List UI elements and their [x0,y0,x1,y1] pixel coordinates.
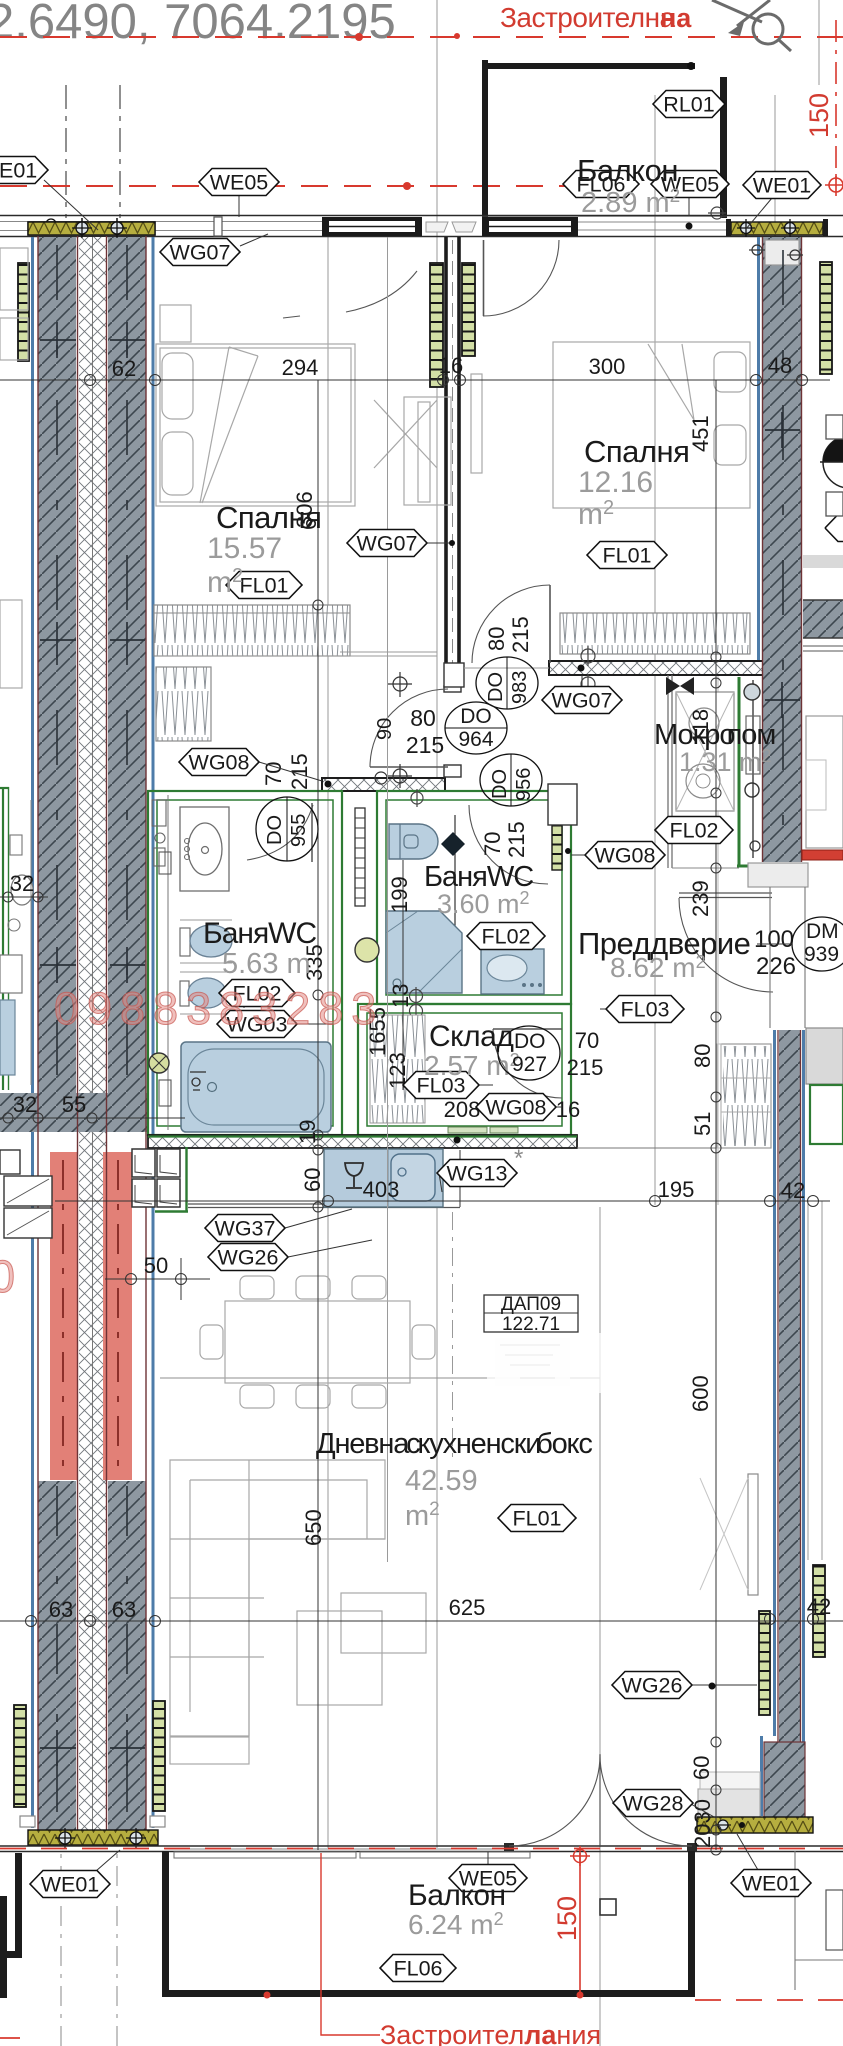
wet room threshold line [672,867,739,869]
svg-text:625: 625 [449,1595,486,1620]
balcony top right parapet [720,77,727,218]
dining table [225,1301,410,1383]
balcony node dot bottom [686,223,693,230]
right exterior wall upper concrete [763,237,802,862]
svg-text:600: 600 [688,1375,713,1412]
top wall mullion tick [214,217,222,236]
right wall widened block [764,1742,805,1833]
left wall insulation band bottom [28,1830,158,1845]
bed bedroom2 pillow 2 [714,425,746,465]
label hexagon WE01 at 782,185 [743,172,821,199]
svg-text:80: 80 [410,705,436,731]
svg-text:FL02: FL02 [669,819,718,843]
door WG28 right swing arc [600,1755,692,1846]
bath1 riser rect 2 [159,1080,171,1106]
red building line top [0,36,843,38]
bedroom2 shelf strip [471,374,482,473]
door DO955 leaf [311,803,313,862]
balcony top left parapet [482,60,488,218]
svg-text:100: 100 [754,926,794,953]
wall axis dash vertical west lower [56,1486,58,1825]
wardrobe bedroom2 [560,613,750,654]
bedroom1 desk inner strip [418,402,430,502]
right wall axis mark 2 [765,682,800,718]
neighbor bath green wall top [0,787,9,789]
node dot br insulation [739,1822,745,1828]
door tag circle DO956 [480,754,542,806]
svg-text:Балкон: Балкон [577,153,678,188]
neighbor right bottom window [826,1890,843,1950]
wall axis dash vertical east lower [126,1486,128,1825]
kitchen vent block a [132,1149,155,1177]
bed bedroom1 inner border [160,348,351,502]
south wall sill mid line [165,1848,509,1850]
corridor closet sill [717,1044,721,1148]
survey point bottom insulation 1 [55,1828,75,1848]
bath1 tap symbol [190,1072,206,1090]
balcony bottom south parapet [162,1990,695,1997]
corridor east boundary line 1 [769,887,771,1028]
dimension chain y1621 [0,1620,843,1622]
insulation band top right WE01 [731,222,823,235]
door DO955 swing arc [247,805,313,860]
svg-text:2.89 m2: 2.89 m2 [581,186,680,219]
label hexagon FL02 at 506,936 [467,923,545,950]
top wall sill under balcony 2 [578,229,727,231]
wall axis dash vertical west bar [56,245,58,1088]
label hexagon FL06 at 418,1968 [380,1955,456,1982]
corridor closet hatch fill [723,1046,769,1146]
left wall crosshatch center line [92,237,94,1830]
dim circles x318 [313,600,323,1212]
svg-text:Балкон: Балкон [408,1879,506,1912]
neighbor furniture top-left 3 [0,600,22,688]
neighbor room green right [810,1085,843,1144]
svg-text:WG07: WG07 [170,241,231,265]
bath2 shower corner line [386,911,462,993]
left wall axis mark d [40,1730,145,1766]
red axis line bottom vertical [579,1853,581,1997]
grid axis dashed x120 top [119,85,121,218]
svg-text:300: 300 [589,354,626,379]
wardrobe bedroom1 front line [154,612,350,614]
wet room green wall east [738,677,741,866]
south wall window line outer [0,1845,843,1847]
sofa ottoman [170,1737,249,1764]
label hexagon WE01 at 70,1884 [30,1871,110,1898]
svg-text:DO: DO [485,672,507,702]
bath1 bathtub [181,1042,331,1132]
bath2 sink cabinet [481,949,544,994]
bath1 outer green wall [148,791,342,1135]
svg-text:60: 60 [300,1168,325,1192]
left wall red edge line 2 [77,236,79,1830]
balcony bottom west parapet [162,1851,169,1997]
label hexagon WG08 at 625,855 [585,842,665,869]
left wall red masonry east [103,1152,132,1480]
left wall red edge line 3 [106,236,108,1830]
right wall red edge east [801,237,803,862]
bath2 towel radiator [552,808,562,870]
sofa cushion line 1 [170,1538,385,1540]
red node dot bottom a [577,1992,584,1999]
insulation band top left WE01 [28,222,155,235]
wardrobe bedroom1 [154,605,350,656]
red node dot bottom b [264,1992,271,1999]
neighbor kitchen block a [4,1176,52,1206]
sklad inner green wall [367,1013,562,1126]
label hexagon WG28 at 653,1803 [613,1790,693,1817]
wet room green wall south [737,865,768,868]
living axis dashed x452 [452,1212,454,1462]
kitchen green wall return vertical [185,1147,187,1212]
neighbor wall thin lines right [803,646,843,651]
neighbor furniture top-left 2 [0,318,28,360]
compass magnifier icon [712,0,791,51]
svg-text:48: 48 [768,353,792,378]
bath1 faucet dots [185,839,190,860]
right wall blue inner line upper [757,237,760,660]
svg-text:15.57: 15.57 [207,532,282,565]
inter-bedroom wall line west [444,237,448,686]
neighbor bath green wall west inner [8,787,10,1090]
radiator bedroom2 side [462,263,475,356]
living grid vertical x387 [387,237,389,1562]
DAP09 smudge [495,1338,570,1386]
svg-text:215: 215 [567,1055,604,1080]
wet room pipes line [752,680,754,858]
left wall concrete bar east lower [108,1481,146,1830]
svg-text:239: 239 [688,880,713,917]
bath2 inner green wall [386,800,562,995]
svg-text:Спалня: Спалня [584,434,689,469]
threshold grey block bottom right [698,1789,760,1833]
svg-text:1.31 m2: 1.31 m2 [679,746,772,777]
section marker half circle right edge [820,436,843,488]
bath1 riser cluster top [152,800,166,866]
bath2 shower drain [393,979,401,987]
survey point on insulation 1 [72,218,92,238]
wall junction trapezoid left [426,222,448,232]
bath2 toilet tank divider [399,824,401,859]
sklad shelving hatch [370,1015,425,1123]
svg-text:403: 403 [363,1177,400,1202]
door tag circle DO927 [498,1026,560,1080]
svg-text:FL06: FL06 [393,1957,442,1981]
door DO983 jamb block [444,663,464,687]
kitchen unit divider [387,1149,389,1207]
left wall red edge line 4 [145,236,147,1830]
bath2 wall junction dot [565,848,571,854]
svg-text:50: 50 [144,1253,168,1278]
svg-text:80: 80 [484,627,509,651]
left wall axis mark c [40,947,145,983]
balcony top parapet [482,63,695,69]
sill green strip a [448,1127,487,1133]
armchair living [341,1593,426,1653]
svg-text:WG26: WG26 [218,1246,279,1270]
wet room pipe circle 2 [745,783,759,797]
inter-bedroom wall jamb [444,686,461,692]
label hexagon WG07 at 582,700 [542,687,622,714]
right wall blue line lower [762,1030,775,1816]
label hexagon WG26 at 248,1257 [208,1244,288,1271]
right exterior wall lower concrete [779,1030,801,1742]
svg-text:63: 63 [112,1597,136,1622]
kitchen vent block b [157,1149,180,1177]
left wall concrete bar east upper [108,237,146,1093]
svg-text:DO: DO [514,1030,546,1053]
bed bedroom2 fold line [648,344,694,420]
baths south wall band [148,1135,577,1148]
bath1 bidet tank [180,981,189,1006]
wall end caps bottom left [20,1816,35,1827]
door tag circle DM939 [792,917,843,971]
cabinet bedroom1 low [156,667,211,741]
left wall party-wall stub [0,1093,147,1132]
svg-text:WG08: WG08 [486,1096,547,1120]
corridor closet shelf lines [721,1078,771,1112]
door tag circle DO964 [445,702,507,754]
svg-text:451: 451 [688,415,713,452]
entrance niche [748,863,808,887]
bath1 bidet bowl [188,978,226,1008]
dim circles y1201 [323,1196,819,1207]
door DO927 swing arc [493,1029,562,1098]
wet room washing unit [676,692,734,811]
grid axis vertical x600 bottom [599,1207,601,2046]
bath1 bidet shelf line [180,972,228,1014]
svg-text:55: 55 [62,1092,86,1117]
svg-text:FL01: FL01 [239,574,288,598]
vertical dim chain left x318 [317,380,319,1850]
leader lines for labels [44,180,98,230]
right wall axis dash lower [789,1040,791,1735]
svg-text:БаняWC: БаняWC [203,917,317,950]
grid axis vertical x819 [818,0,820,85]
svg-text:Склад: Склад [429,1020,513,1053]
bath1 bathtub drain [208,1083,217,1092]
dim circles y1621 [26,1616,161,1627]
dim chain left y897 [0,896,48,898]
grid axis dashed x61 bottom [60,1626,62,2046]
bath1 toilet bowl [190,925,232,957]
right wall survey circle top b [787,250,803,260]
label hexagon WG08 at 516,1107 [476,1094,556,1121]
wall axis dash vertical east bar [126,245,128,1088]
svg-text:6: 6 [296,518,321,530]
svg-text:WE01: WE01 [753,174,812,198]
grid axis vertical x775 [774,95,776,240]
dim circles y1114 [3,1113,97,1123]
svg-text:964: 964 [458,728,493,751]
kitchen vent block d [157,1179,180,1207]
left exterior wall blue line east [152,237,155,1828]
bed bedroom2 pillow 1 [714,352,746,392]
svg-text:WG08: WG08 [595,844,656,868]
svg-text:63: 63 [49,1597,73,1622]
svg-text:WG13: WG13 [447,1162,508,1186]
red survey circle bottom [570,1846,590,1866]
DM939 leader [757,943,792,945]
bath2 sink oval [487,955,527,981]
balcony sill bracket 1 [174,1852,356,1858]
sklad outer green wall [358,1004,571,1135]
radiator living right [759,1611,770,1715]
svg-text:983: 983 [509,671,531,704]
top wall outer edge line [0,215,843,217]
insulation band bottom right [697,1817,813,1833]
svg-text:80: 80 [690,1044,715,1068]
label hexagon WG07 at 387,543 [347,530,427,557]
baths south wall green line [148,1135,577,1137]
right wall blue line lower east [802,1030,805,1833]
right wall red band [802,850,843,860]
svg-text:8.62 m2: 8.62 m2 [610,952,706,983]
label hexagon WE01 at 8,170 [0,157,48,184]
bath2 toilet flush square [404,835,418,848]
neighbor balcony rail line 1 [807,1201,809,1560]
survey point on insulation 2 [107,218,127,238]
svg-text:195: 195 [658,1177,695,1202]
small circle on insulation left [46,219,56,229]
kitchen vent diagonals [135,1155,177,1204]
node dot baths wall [454,1137,461,1144]
svg-text:FL01: FL01 [602,544,651,568]
neighbor kitchen diagonals [7,1179,49,1235]
neighbor kitchen block b [4,1208,52,1238]
grid axis vertical x328 living [327,237,329,1848]
svg-text:939: 939 [804,943,839,966]
svg-text:DO: DO [264,815,286,845]
corridor north wall band [549,661,765,675]
bath1 valve circle yellow [149,1053,169,1073]
bath1 toilet tank [180,928,190,956]
door tag circle DO983 [476,657,538,709]
bath2 sink dots [522,983,542,987]
left wall insulation core crosshatch [79,237,106,1830]
radiator bedroom1 side [430,263,443,387]
bedroom1 X mark [374,400,437,468]
corridor east boundary line 2 [804,887,806,1028]
bath2 outer green wall [377,791,571,1004]
neighbor bath pipe line [30,800,32,1085]
grid axis vertical x718 [717,660,719,1205]
red axis 150 vertical right [835,20,837,185]
balcony survey circle [708,207,726,219]
neighbor bath toilet [11,875,33,905]
svg-text:70: 70 [575,1028,599,1053]
bed bedroom1 pillow 2 [162,432,193,495]
label hexagon FL02 at 257,993 [219,980,295,1007]
left exterior wall blue line west [31,237,34,1828]
bedroom1 south wall node dot [325,781,332,788]
bath1 valve circle yellow2 [355,938,379,962]
leader node dot WG26 [709,1683,716,1690]
wet room pipe circle 3 [750,841,760,851]
inter-bedroom wall line east [457,237,461,686]
svg-text:70: 70 [480,832,505,856]
svg-text:DM: DM [806,920,839,943]
bedroom1 south wall band [322,778,445,791]
dining chair left [200,1325,223,1359]
insulation right bracket right [823,219,828,236]
svg-text:WG07: WG07 [552,689,613,713]
svg-text:927: 927 [512,1053,547,1076]
grid axis vertical x437 [436,0,438,790]
svg-text:WG37: WG37 [215,1217,276,1241]
left wall concrete bar west lower [38,1481,76,1830]
dining chair t3 [352,1276,386,1299]
dim circles y1619 right [765,1614,819,1625]
label hexagon WE05 at 239,182 [199,169,279,196]
bath1 basin drain [202,847,209,854]
tv board right [748,1474,758,1595]
svg-text:5.63 m: 5.63 m [222,948,311,980]
dining chair right [412,1325,435,1359]
kitchen vent block c [132,1179,155,1207]
left wall red section axis dash east [117,1160,119,1475]
entrance door leaf [679,893,772,898]
bed bedroom2 [553,342,750,508]
svg-text:ДАП09: ДАП09 [501,1294,561,1315]
svg-text:WG28: WG28 [623,1792,684,1816]
label hexagon FL02 at 694,830 [655,817,733,844]
label hexagon WG07 at 200,252 [160,239,240,266]
label hexagon WE05 at 488,1878 [449,1865,527,1892]
top wall inner edge line [0,236,843,238]
kitchen green wall return horizontal [155,1210,188,1212]
stair landing grey block [806,1028,843,1084]
bath2 shower tray [386,911,462,993]
svg-text:19: 19 [295,1120,320,1144]
neighbor bath green wall west [2,787,4,1090]
svg-text:51: 51 [690,1112,715,1136]
door WG28 leaf center [599,1754,601,1845]
sofa inner seat [190,1480,367,1712]
survey point br insulation [715,1820,731,1830]
red node dot top 2 [454,33,460,39]
red node dot balcony line [403,182,411,190]
wet room washer circle top [689,708,719,738]
svg-text:199: 199 [387,876,412,913]
svg-text:16: 16 [556,1097,580,1122]
balcony door swing bedroom2 leaf [483,240,485,316]
threshold white block [700,1772,760,1789]
bath1 bathtub inner [188,1049,324,1125]
top wall sill line left [0,221,322,223]
right wall axis mark 1 [765,412,800,448]
radiator neighbor right top [820,262,832,374]
top wall sill line left2 [0,230,322,232]
right neighbor wall bottom lines [795,1851,843,1990]
left wall axis mark a [40,322,145,358]
neighbor wall branch right [803,600,843,638]
door DO983 leaf [549,585,551,663]
radiator bottom-left west [14,1705,26,1807]
compass arrowhead [728,22,744,36]
grid line y652 segment [340,651,437,653]
svg-text:215: 215 [508,616,533,653]
right wall axis dash upper [782,250,784,855]
left wall red edge line 1 [37,236,39,1830]
svg-text:WE05: WE05 [210,171,269,195]
neighbor kitchen block c [0,1150,20,1174]
corridor floor line y1148 [577,1147,716,1149]
svg-text:WG07: WG07 [357,532,418,556]
door DO964 bottom jamb [444,765,461,777]
svg-text:650: 650 [301,1509,326,1546]
